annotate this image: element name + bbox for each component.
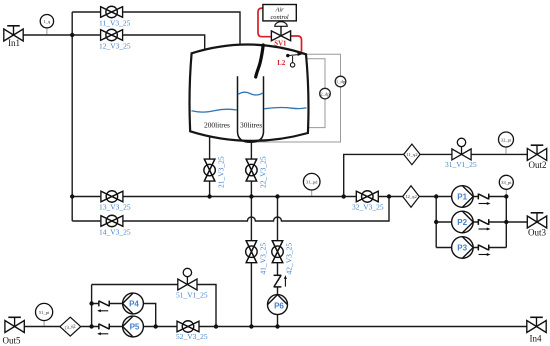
svg-text:SV1: SV1 bbox=[274, 40, 287, 47]
svg-text:21_V3_25: 21_V3_25 bbox=[217, 156, 226, 188]
svg-text:P6: P6 bbox=[274, 302, 284, 311]
svg-text:11_V3_25: 11_V3_25 bbox=[99, 19, 131, 28]
svg-text:2_dp: 2_dp bbox=[320, 91, 330, 96]
svg-text:12_V3_25: 12_V3_25 bbox=[99, 42, 131, 51]
svg-text:51_V1_25: 51_V1_25 bbox=[176, 291, 208, 300]
svg-text:32_V3_25: 32_V3_25 bbox=[352, 203, 384, 212]
svg-text:200litres: 200litres bbox=[204, 121, 230, 130]
svg-text:1_q: 1_q bbox=[43, 19, 51, 24]
svg-text:In1: In1 bbox=[8, 38, 20, 48]
svg-text:42_V3_25: 42_V3_25 bbox=[284, 243, 293, 275]
svg-text:Air: Air bbox=[275, 7, 285, 14]
svg-text:Out2: Out2 bbox=[529, 160, 547, 170]
svg-text:14_V3_25: 14_V3_25 bbox=[99, 228, 131, 237]
svg-text:30litres: 30litres bbox=[240, 121, 262, 130]
svg-text:P5: P5 bbox=[130, 323, 140, 332]
svg-text:P3: P3 bbox=[457, 244, 467, 253]
svg-text:52_V3_25: 52_V3_25 bbox=[176, 332, 208, 341]
svg-text:11_q2: 11_q2 bbox=[406, 152, 418, 157]
svg-text:12_q2: 12_q2 bbox=[405, 194, 417, 199]
svg-text:P1: P1 bbox=[457, 193, 467, 202]
svg-text:P2: P2 bbox=[457, 218, 467, 227]
svg-text:13_V3_25: 13_V3_25 bbox=[99, 203, 131, 212]
svg-text:control: control bbox=[270, 14, 288, 21]
svg-text:33_pt: 33_pt bbox=[501, 180, 512, 185]
svg-text:51_pt: 51_pt bbox=[39, 310, 50, 315]
svg-text:Out5: Out5 bbox=[3, 336, 22, 346]
svg-text:In4: In4 bbox=[530, 334, 542, 344]
svg-text:1_dp: 1_dp bbox=[336, 79, 346, 84]
svg-text:41_V3_25: 41_V3_25 bbox=[259, 243, 268, 275]
svg-text:22_V3_25: 22_V3_25 bbox=[258, 156, 267, 188]
svg-text:Out3: Out3 bbox=[528, 228, 547, 238]
svg-text:L2: L2 bbox=[277, 60, 286, 67]
svg-text:31_V1_25: 31_V1_25 bbox=[445, 160, 477, 169]
svg-text:32_pt: 32_pt bbox=[501, 137, 512, 142]
svg-text:P4: P4 bbox=[129, 300, 139, 309]
svg-text:31_pd: 31_pd bbox=[306, 180, 318, 185]
